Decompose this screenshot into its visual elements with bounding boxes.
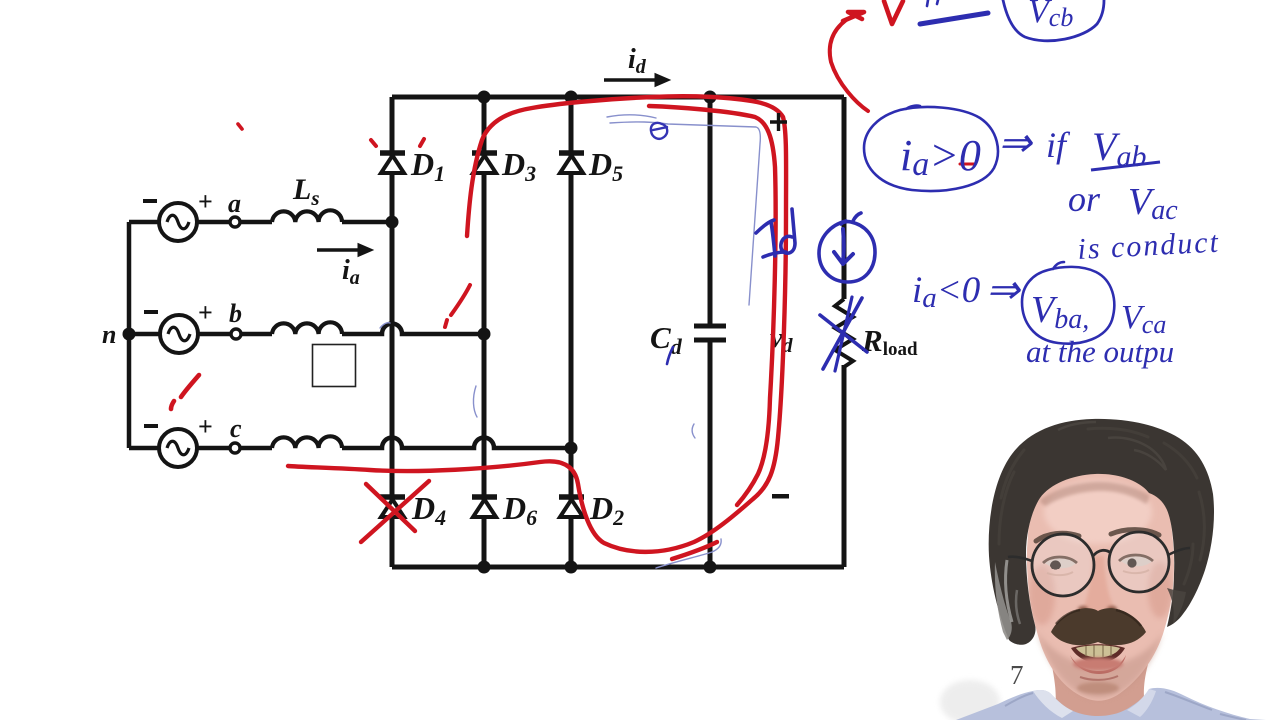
wire phase b with hop xyxy=(129,324,484,335)
node top D3 xyxy=(478,91,491,104)
diode D1 xyxy=(380,153,405,173)
blue arrow inside current source xyxy=(834,229,853,264)
svg-text:+: + xyxy=(198,298,213,327)
node bottom D6 xyxy=(478,561,491,574)
svg-text:+: + xyxy=(198,412,213,441)
label + output redrawn xyxy=(770,113,787,131)
glasses xyxy=(1008,532,1190,596)
diode D6 xyxy=(472,497,497,517)
svg-text:a: a xyxy=(228,189,241,218)
eyebrow left xyxy=(1036,533,1079,541)
svg-text:b: b xyxy=(229,299,242,328)
lower lip xyxy=(1070,655,1126,674)
node phase b xyxy=(478,328,491,341)
wire phase a xyxy=(129,220,392,225)
red V check top right xyxy=(884,1,903,24)
arrow ia xyxy=(317,244,373,257)
nostril left xyxy=(1078,606,1088,612)
blue ellipse around ia>0 xyxy=(864,106,998,191)
faint blue pen strokes xyxy=(380,115,760,568)
wire bottom bus xyxy=(392,565,844,570)
wire leg D1/D4 xyxy=(390,97,395,567)
blue X over resistor xyxy=(823,298,862,369)
mouth opening xyxy=(1071,644,1125,663)
node phase c xyxy=(565,442,578,455)
faint blue squiggle bottom xyxy=(656,539,721,568)
node n xyxy=(123,328,136,341)
label minus source b xyxy=(144,310,158,314)
teeth xyxy=(1076,645,1120,657)
blue handwritten text xyxy=(900,0,1221,369)
red arrow to top right xyxy=(830,20,868,111)
red ticks above D1 xyxy=(371,140,376,146)
faint blue dash on D3 leg xyxy=(473,386,477,417)
wire leg D5/D2 xyxy=(569,97,574,567)
blue small marks above underline xyxy=(927,0,938,6)
svg-text:c: c xyxy=(230,414,242,443)
blue ellipse around Vba xyxy=(1022,262,1114,344)
red X over D4 xyxy=(366,484,415,531)
node bottom Cd xyxy=(704,561,717,574)
blue theta glyph xyxy=(651,123,667,139)
node top Cd xyxy=(704,91,717,104)
svg-text:⇒: ⇒ xyxy=(986,267,1021,312)
wire phase c with two hops xyxy=(129,438,571,449)
source Va xyxy=(159,203,197,241)
node top D5 xyxy=(565,91,578,104)
soft shadow left of shirt xyxy=(940,680,1000,720)
hair mass xyxy=(989,419,1214,645)
red tick top left xyxy=(238,124,242,129)
wire top bus xyxy=(392,95,844,100)
node b terminal xyxy=(231,329,241,339)
black labels xyxy=(102,44,918,530)
hair front shadow on forehead xyxy=(1040,482,1149,506)
diode D2 xyxy=(559,497,584,517)
red pen strokes xyxy=(171,1,974,559)
red arc near D3 xyxy=(445,285,470,327)
faint blue tick near b hop xyxy=(380,323,390,328)
inductor phase b xyxy=(272,322,342,334)
blue partial ellipse around Vcb xyxy=(1003,0,1104,41)
hair waves highlights xyxy=(999,428,1204,584)
eye left xyxy=(1045,558,1076,568)
inductor phase c xyxy=(272,436,342,448)
node bottom D2 xyxy=(565,561,578,574)
blue thick underline top xyxy=(920,13,988,24)
capacitor Cd plates xyxy=(694,326,726,340)
stubble lower face xyxy=(1036,630,1163,699)
node c terminal xyxy=(230,443,240,453)
node a terminal xyxy=(230,217,240,227)
eyebrow right xyxy=(1111,530,1159,535)
wire left rail n xyxy=(127,222,132,448)
gray sideburn left xyxy=(995,562,1012,640)
svg-text:at the outpu: at the outpu xyxy=(1026,334,1174,369)
nose xyxy=(1083,556,1114,615)
svg-text:7: 7 xyxy=(1010,660,1024,690)
resistor Rload zigzag xyxy=(835,299,853,367)
arrow id xyxy=(604,74,670,87)
blue pen annotations xyxy=(667,0,1114,371)
blue current source circle xyxy=(819,213,875,282)
wire capacitor leg xyxy=(708,97,713,567)
face base xyxy=(1027,467,1174,701)
faint blue underline near theta xyxy=(607,115,656,118)
red arrowhead scribble xyxy=(843,12,864,21)
diode D4 xyxy=(380,497,405,517)
source Vc xyxy=(159,429,197,467)
small blank square annotation box xyxy=(313,345,356,387)
sideburn right dark xyxy=(1167,588,1186,624)
blue tick under Cd xyxy=(667,347,673,364)
svg-text:or: or xyxy=(1068,179,1101,219)
chin shadow xyxy=(1077,682,1119,694)
blue Id handwriting xyxy=(756,220,786,257)
PERSON webcam cutout xyxy=(940,419,1266,720)
svg-text:Vcb: Vcb xyxy=(1028,0,1073,32)
neck xyxy=(1052,664,1148,720)
red tail at bottom xyxy=(672,542,717,559)
source Vb xyxy=(160,315,198,353)
red loop outer: from D3 up over top and down right side xyxy=(288,96,786,552)
red underline under 0 in circle xyxy=(960,163,974,166)
svg-text:+: + xyxy=(198,187,213,216)
wire leg D3/D6 xyxy=(482,97,487,567)
wire load leg xyxy=(842,97,847,567)
svg-text:n: n xyxy=(102,320,116,349)
mustache xyxy=(1051,608,1146,645)
inductor Ls phase a xyxy=(272,210,342,222)
nostril right xyxy=(1107,606,1117,612)
faint blue box outline top and right xyxy=(610,122,760,305)
svg-text:⇒: ⇒ xyxy=(998,120,1033,165)
red arc left between b and c xyxy=(171,375,199,409)
faint blue tick xyxy=(692,424,695,438)
node phase a xyxy=(386,216,399,229)
red loop inner strand xyxy=(649,106,776,505)
label minus source c xyxy=(144,424,158,428)
svg-text:ia>0: ia>0 xyxy=(900,131,981,183)
temple shading xyxy=(1029,565,1055,625)
diode D3 xyxy=(472,153,497,173)
label minus source a xyxy=(143,199,157,203)
diode D5 xyxy=(559,153,584,173)
shirt xyxy=(956,688,1266,720)
label minus output xyxy=(772,494,789,499)
forehead highlight xyxy=(1044,480,1152,544)
eye right xyxy=(1121,556,1152,566)
